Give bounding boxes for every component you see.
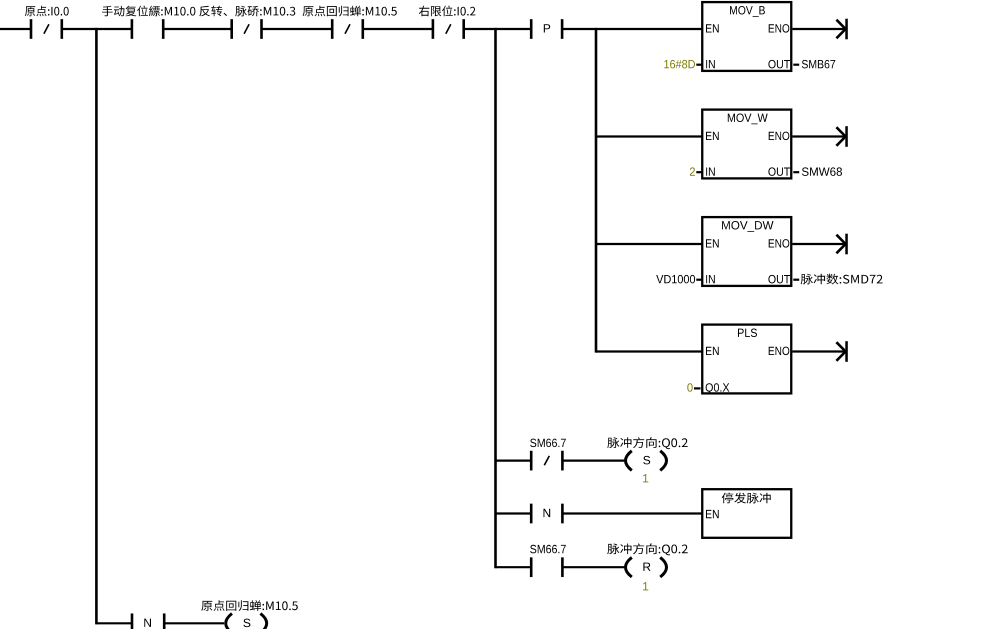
operand SMW68 at MOV_W OUT — [802, 167, 842, 176]
wire: contact5-P contact segment (through node J2) — [464, 28, 532, 30]
wire+arrow: PLS ENO continuation arrow — [792, 341, 847, 362]
value 0 at PLS Q0.X pin — [687, 383, 692, 392]
function box PLS U4 — [702, 325, 791, 394]
contact 右限位:I0.2 (NC) — [432, 19, 465, 39]
wire: MOV_W OUT stub — [793, 171, 799, 173]
label 手动复位縹:M10.0 — [102, 6, 195, 17]
function box MOV_B U1 — [702, 2, 791, 71]
function box MOV_DW U3 — [702, 217, 791, 286]
label 反转、脉硚:M10.3 — [199, 6, 295, 17]
wire: SM66.7 contact to S coil — [562, 460, 624, 462]
label 右限位:I0.2 — [419, 6, 476, 17]
wire: J3 to MOV_DW EN — [596, 243, 703, 245]
label 原点回归蝉:M10.5 (bottom rung) — [201, 600, 297, 611]
label SM66.7 (set rung) — [530, 439, 566, 448]
label SM66.7 (reset rung) — [530, 545, 566, 554]
wire: MOV_B IN stub — [696, 64, 702, 66]
wire: contact2-contact3 segment — [163, 28, 232, 30]
label 原点回归蝉:M10.5 — [303, 6, 397, 17]
wire: J1 to bottom N contact — [96, 622, 132, 624]
wire: PLS Q0.X stub — [694, 387, 701, 389]
wire: N contact to 停发脉冲 box — [562, 512, 702, 514]
contact 反转、脉硚:M10.3 (NC) — [230, 19, 262, 39]
wire+arrow: MOV_DW ENO continuation arrow — [792, 234, 847, 255]
wire: J2 to SM66.7 NC contact — [496, 460, 532, 462]
wire: contact3-contact4 segment — [262, 28, 333, 30]
wire: right branch vertical (node J3) — [595, 28, 598, 353]
function box MOV_W U2 — [702, 110, 791, 179]
wire: left rail segment to contact 1 — [0, 28, 31, 30]
contact 手动复位縹:M10.0 (NO) — [131, 19, 165, 39]
wire: contact4-contact5 segment — [363, 28, 433, 30]
wire: SM66.7 contact to R coil — [562, 566, 624, 568]
contact SM66.7 (NO) — [530, 557, 564, 577]
value 2 at MOV_W IN — [690, 167, 695, 175]
coil S 脉冲方向:Q0.2 — [626, 451, 667, 471]
wire: J2 to SM66.7 NO contact — [496, 566, 532, 568]
wire: J2 to N contact — [496, 512, 532, 514]
wire: MOV_W IN stub — [696, 171, 702, 173]
wire: P contact to MOV_B EN (through node J3) — [562, 28, 702, 30]
contact 原点:I0.0 (NC) — [30, 19, 63, 39]
value VD1000 at MOV_DW IN — [656, 275, 695, 284]
coil S 原点回归蝉:M10.5 — [226, 614, 267, 629]
contact N (negative edge) — [530, 504, 564, 524]
wire: J3 to MOV_W EN — [596, 135, 703, 137]
contact 原点回归蝉:M10.5 (NC) — [331, 19, 364, 39]
operand SMB67 at MOV_B OUT — [802, 60, 835, 69]
wire: bottom N contact to S coil — [164, 622, 224, 624]
wire: MOV_DW IN stub — [696, 279, 702, 281]
contact N (negative edge, bottom rung) — [131, 613, 166, 629]
label 脉冲方向:Q0.2 (set rung) — [607, 437, 687, 449]
contact SM66.7 (NC) — [530, 451, 564, 471]
label 停发脉冲 title — [722, 493, 771, 504]
label 原点:I0.0 — [25, 6, 69, 17]
wire: J3 to PLS EN — [596, 350, 703, 352]
wire: left branch vertical (node J1) — [95, 28, 98, 625]
label 脉冲方向:Q0.2 (reset rung) — [607, 543, 687, 555]
contact P (positive edge) — [530, 19, 563, 39]
wire: contact1-contact2 segment — [62, 28, 132, 30]
wire+arrow: MOV_W ENO continuation arrow — [792, 126, 847, 147]
coil R 脉冲方向:Q0.2 — [626, 557, 667, 577]
wire: MOV_B OUT stub — [793, 64, 799, 66]
function box 停发脉冲 U5 — [702, 489, 791, 538]
value 1 below R coil — [643, 582, 648, 590]
wire+arrow: MOV_B ENO continuation arrow — [792, 19, 847, 40]
operand 脉冲数:SMD72 at MOV_DW OUT — [801, 274, 883, 285]
value 16#8D at MOV_B IN — [664, 60, 695, 69]
wire: middle branch vertical (node J2) — [494, 28, 497, 568]
value 1 below S coil — [643, 474, 648, 482]
wire: MOV_DW OUT stub — [793, 279, 799, 281]
